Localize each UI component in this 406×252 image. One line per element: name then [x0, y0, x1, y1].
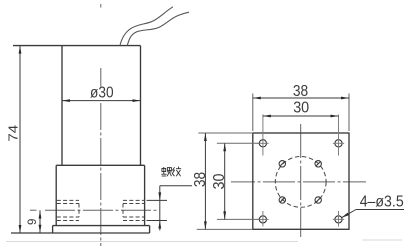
dimension 30 top — [263, 100, 339, 118]
wire lead 2 — [127, 12, 189, 45]
base block — [56, 165, 144, 225]
right threaded hole (hidden lines) — [123, 200, 145, 220]
flange plate — [11, 226, 150, 233]
square flange plate outline — [253, 133, 349, 229]
label 螺纹 (thread) drawn strokes — [161, 167, 171, 176]
dimension 38 top — [253, 83, 349, 100]
corner hole bottom-left with center marks — [257, 211, 268, 227]
dimension ø30 — [62, 85, 141, 102]
small hole on bolt circle: top-right — [315, 161, 321, 167]
small hole on bolt circle: bottom-left — [279, 197, 285, 203]
svg-text:9: 9 — [27, 219, 39, 225]
extension lines top — [253, 94, 349, 132]
svg-text:4–ø3.5: 4–ø3.5 — [360, 194, 404, 211]
faint scan line at bottom — [6, 240, 402, 242]
horizontal centerline of side threaded holes — [30, 209, 158, 211]
label 4-ø3.5 with leader — [342, 194, 405, 218]
svg-text:30: 30 — [211, 173, 228, 189]
dimension 74 — [5, 46, 21, 233]
extension lines left — [197, 133, 260, 229]
thread extension lines — [147, 200, 168, 220]
horizontal centerline — [231, 181, 366, 183]
svg-text:74: 74 — [5, 125, 20, 142]
svg-text:30: 30 — [293, 100, 309, 117]
dimension 30 left — [211, 143, 228, 219]
corner hole top-left with center marks — [257, 115, 268, 156]
dimension 38 left — [192, 133, 209, 229]
vertical centerline — [300, 124, 302, 237]
svg-text:38: 38 — [293, 83, 308, 100]
bolt circle (dashed) — [275, 157, 326, 208]
top edge line (extension + cylinder top) — [13, 45, 141, 47]
char wen — [172, 167, 174, 176]
vertical centerline of body — [100, 4, 102, 246]
small hole on bolt circle: bottom-right — [315, 197, 321, 203]
svg-text:ø30: ø30 — [90, 85, 114, 102]
left threaded hole (hidden lines) — [57, 200, 79, 220]
corner hole top-right with center marks — [333, 115, 344, 156]
cylinder body sides — [62, 46, 141, 166]
svg-text:38: 38 — [192, 172, 209, 187]
dimension 9 — [27, 210, 42, 233]
small hole on bolt circle: top-left — [279, 161, 285, 167]
wire lead 1 — [120, 7, 173, 46]
corner hole bottom-right with center marks — [333, 211, 344, 227]
char luo — [162, 168, 166, 171]
thread label leader — [158, 186, 192, 231]
